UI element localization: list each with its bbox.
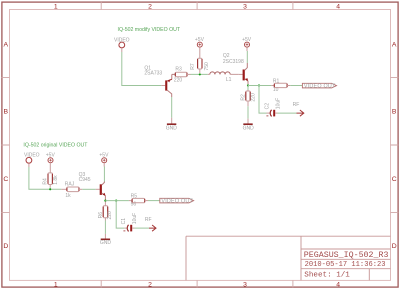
svg-text:R2: R2 xyxy=(241,94,247,101)
svg-text:GND: GND xyxy=(166,125,178,131)
svg-text:750: 750 xyxy=(204,62,210,71)
svg-text:VIDEO OUT: VIDEO OUT xyxy=(304,83,336,89)
svg-text:IQ-502 original VIDEO OUT: IQ-502 original VIDEO OUT xyxy=(23,142,88,148)
svg-text:B: B xyxy=(392,109,397,116)
svg-text:R6: R6 xyxy=(98,212,104,219)
svg-text:GND: GND xyxy=(243,125,255,131)
svg-text:220: 220 xyxy=(107,211,113,220)
svg-text:VIDEO: VIDEO xyxy=(114,38,130,44)
svg-text:B: B xyxy=(4,109,9,116)
svg-text:2SC3198: 2SC3198 xyxy=(223,59,244,65)
svg-text:RF: RF xyxy=(145,217,152,223)
svg-text:RF: RF xyxy=(293,102,300,108)
svg-text:1k: 1k xyxy=(65,193,71,199)
svg-text:2SA733: 2SA733 xyxy=(144,71,162,77)
svg-text:R3: R3 xyxy=(175,66,182,72)
svg-text:C: C xyxy=(3,176,8,183)
svg-text:VIDEO: VIDEO xyxy=(24,152,40,158)
svg-text:VIDEO OUT: VIDEO OUT xyxy=(161,199,193,205)
svg-text:220: 220 xyxy=(174,78,183,84)
svg-text:R4: R4 xyxy=(43,178,49,185)
svg-text:4: 4 xyxy=(336,4,340,11)
svg-text:D: D xyxy=(392,243,397,250)
svg-text:A: A xyxy=(392,41,397,48)
svg-text:1.8k: 1.8k xyxy=(53,175,59,185)
svg-text:2010-05-17 11:36:23: 2010-05-17 11:36:23 xyxy=(305,261,386,269)
svg-text:PEGASUS_IQ-502_R3: PEGASUS_IQ-502_R3 xyxy=(304,251,389,260)
svg-text:A: A xyxy=(4,41,9,48)
svg-text:C2: C2 xyxy=(265,103,271,110)
svg-text:C: C xyxy=(392,176,397,183)
svg-text:D: D xyxy=(3,243,8,250)
svg-text:10uF: 10uF xyxy=(276,98,282,109)
svg-text:1: 1 xyxy=(54,4,58,11)
svg-text:3: 3 xyxy=(243,4,247,11)
svg-text:1: 1 xyxy=(54,281,58,288)
svg-text:L1: L1 xyxy=(226,77,232,83)
svg-text:2: 2 xyxy=(148,4,152,11)
svg-text:3: 3 xyxy=(243,281,247,288)
svg-text:GND: GND xyxy=(100,240,112,246)
svg-text:Sheet: 1/1: Sheet: 1/1 xyxy=(304,272,350,280)
svg-text:IQ-502 modify VIDEO OUT: IQ-502 modify VIDEO OUT xyxy=(118,27,181,33)
svg-text:R7: R7 xyxy=(190,63,196,70)
svg-text:220: 220 xyxy=(250,93,256,102)
svg-text:4: 4 xyxy=(336,281,340,288)
svg-text:C1: C1 xyxy=(121,218,127,225)
svg-text:2: 2 xyxy=(148,281,152,288)
svg-text:10uF: 10uF xyxy=(132,213,138,224)
svg-text:C945: C945 xyxy=(79,177,91,183)
